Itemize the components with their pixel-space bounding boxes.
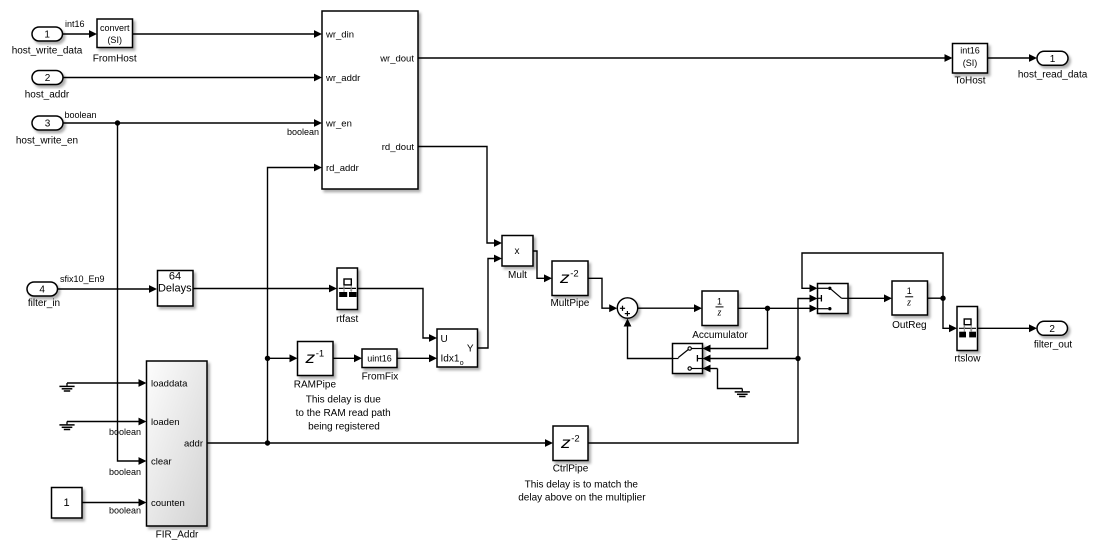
inport 1 host_write_data (32, 27, 63, 41)
outport 1 host_read_data (1037, 51, 1068, 65)
svg-text:boolean: boolean (109, 427, 141, 437)
switch block Switch2 (818, 284, 849, 314)
switch block Switch1 (mirrored) (673, 344, 703, 374)
svg-text:loaddata: loaddata (151, 378, 188, 389)
constant block value 1 (52, 488, 83, 519)
svg-text:wr_addr: wr_addr (325, 73, 360, 84)
svg-text:Idx1: Idx1 (441, 354, 460, 365)
svg-text:wr_en: wr_en (325, 118, 352, 129)
junction on host_write_en wire (115, 120, 120, 125)
svg-text:U: U (441, 334, 448, 345)
svg-text:x: x (515, 246, 520, 257)
wire addr to CtrlPipe (268, 439, 554, 447)
svg-text:rd_dout: rd_dout (382, 142, 415, 153)
svg-text:boolean: boolean (109, 506, 141, 516)
svg-text:2: 2 (1049, 324, 1055, 335)
svg-text:boolean: boolean (65, 110, 97, 120)
ground for Switch1 input 3 (735, 389, 750, 397)
svg-text:Y: Y (467, 343, 474, 354)
svg-text:to the RAM read path: to the RAM read path (296, 408, 391, 419)
wire FromHost to RAM wr_din (133, 30, 323, 38)
svg-text:rd_addr: rd_addr (326, 163, 359, 174)
label host_write_data (12, 45, 83, 56)
svg-text:(SI): (SI) (107, 35, 122, 45)
svg-text:Mult: Mult (508, 270, 527, 281)
delay block MultPipe (552, 261, 588, 296)
svg-text:1: 1 (717, 296, 722, 306)
label Mult (508, 270, 527, 281)
svg-text:Accumulator: Accumulator (692, 330, 748, 341)
wire OutReg junction down to rtslow (943, 298, 957, 332)
wire CtrlPipe to Switch2 input 2 (588, 295, 818, 443)
product block Mult (502, 236, 533, 267)
svg-text:host_write_data: host_write_data (12, 45, 83, 56)
svg-text:z: z (906, 297, 911, 308)
inport 2 host_addr (32, 71, 63, 85)
label OutReg (892, 320, 926, 331)
Delays block (64 Delays) (158, 271, 194, 307)
junction on addr vertical at RAMPipe branch (265, 356, 270, 361)
svg-text:convert: convert (100, 23, 130, 33)
wire addr branch to RAMPipe (268, 354, 298, 362)
svg-text:This delay is to match the: This delay is to match the (525, 479, 639, 490)
junction on OutReg output (940, 296, 945, 301)
svg-text:host_write_en: host_write_en (16, 135, 78, 146)
svg-text:64: 64 (169, 271, 181, 283)
ground 2 (59, 422, 74, 430)
svg-text:Delays: Delays (158, 283, 192, 295)
outport 2 filter_out (1037, 321, 1068, 335)
wire FIR_Addr addr output (207, 442, 268, 444)
annotation CtrlPipe delay note (518, 479, 646, 503)
svg-text:1: 1 (44, 30, 50, 41)
svg-text:1: 1 (63, 497, 69, 509)
wire RAM rd_dout to Mult input 1 (418, 147, 502, 247)
svg-text:filter_in: filter_in (28, 298, 60, 309)
svg-text:delay above on the multiplier: delay above on the multiplier (518, 492, 646, 503)
rate transition block rtslow (957, 307, 978, 351)
wire feedback OutReg to Switch2 input 1 (802, 253, 943, 298)
wire rtslow to Out2 filter_out (978, 324, 1038, 332)
signal type label boolean (host_write_en) (65, 110, 97, 120)
wire CtrlPipe branch to Switch1 input 2 (703, 355, 799, 363)
svg-text:-2: -2 (570, 269, 578, 280)
wire MultPipe to Sum (588, 278, 617, 312)
label FIR_Addr (156, 530, 199, 541)
label rtfast (336, 314, 358, 325)
ground 1 (59, 383, 74, 391)
svg-text:boolean: boolean (109, 467, 141, 477)
delay block Accumulator (702, 291, 738, 326)
subsystem block FIR_Addr (147, 361, 208, 526)
label filter_in (28, 298, 60, 309)
dual port RAM block (322, 11, 418, 189)
junction on addr wire (265, 440, 270, 445)
wire In1 host_write_data to FromHost (63, 30, 98, 38)
svg-text:o: o (460, 360, 464, 367)
selector block Idx1 (437, 329, 478, 367)
rate transition block rtfast (337, 268, 358, 310)
wire ToHost to Out1 host_read_data (988, 54, 1038, 62)
wire Selector Y to Mult input 2 (478, 255, 503, 348)
svg-text:ToHost: ToHost (954, 75, 985, 86)
svg-text:filter_out: filter_out (1034, 340, 1073, 351)
svg-text:-1: -1 (316, 349, 324, 360)
label ToHost (954, 75, 985, 86)
signal type label sfix10_En9 (60, 274, 105, 284)
svg-text:being registered: being registered (308, 422, 380, 433)
svg-text:FIR_Addr: FIR_Addr (156, 530, 199, 541)
wire OutReg output to junction (928, 297, 944, 299)
signal type label boolean (loaden) (109, 427, 141, 437)
svg-text:clear: clear (151, 456, 172, 467)
wire RAMPipe to FromFix (333, 354, 362, 362)
svg-text:z: z (716, 308, 721, 319)
label Accumulator (692, 330, 748, 341)
wire Sum to Accumulator (638, 304, 702, 312)
wire Switch1 input 3 from ground (703, 365, 743, 389)
label RAMPipe (294, 379, 337, 390)
wire In2 host_addr to RAM wr_addr (63, 74, 322, 82)
label rtslow (954, 353, 981, 364)
annotation RAM read path note (296, 394, 391, 432)
svg-text:rtfast: rtfast (336, 314, 358, 325)
label FromFix (362, 371, 399, 382)
junction on CtrlPipe vertical (795, 356, 800, 361)
signal type label boolean (counten) (109, 506, 141, 516)
svg-text:counten: counten (151, 498, 185, 509)
svg-text:host_read_data: host_read_data (1018, 70, 1088, 81)
signal type label boolean (clear) (109, 467, 141, 477)
svg-text:loaden: loaden (151, 417, 180, 428)
delay block CtrlPipe (553, 426, 588, 461)
svg-text:int16: int16 (960, 45, 980, 55)
wire Constant1 to FIR_Addr counten (82, 499, 147, 507)
label MultPipe (550, 298, 589, 309)
wire Delays to rtfast (193, 285, 337, 293)
wire branch host_write_en down to FIR_Addr clear (118, 123, 147, 465)
wire addr branch up to RAM rd_addr (268, 164, 323, 443)
sum block (617, 298, 637, 318)
svg-text:1: 1 (1050, 54, 1056, 65)
svg-text:sfix10_En9: sfix10_En9 (60, 274, 105, 284)
svg-text:z: z (559, 270, 570, 287)
svg-text:3: 3 (45, 119, 51, 130)
wire Mult to MultPipe (533, 251, 552, 282)
svg-text:host_addr: host_addr (25, 90, 70, 101)
wire ground1 to FIR_Addr loaddata (67, 379, 147, 387)
svg-text:CtrlPipe: CtrlPipe (553, 463, 589, 474)
wire In4 filter_in to Delays (57, 285, 157, 293)
wire In3 host_write_en to RAM wr_en (63, 119, 322, 127)
svg-text:OutReg: OutReg (892, 320, 926, 331)
svg-text:FromFix: FromFix (362, 371, 399, 382)
svg-text:int16: int16 (65, 19, 85, 29)
svg-text:-2: -2 (571, 433, 579, 444)
label CtrlPipe (553, 463, 589, 474)
wire Accumulator branch to Switch1 input 1 (703, 308, 768, 352)
wire Switch1 output to Sum bottom input (624, 319, 673, 359)
wire Accumulator to Switch2 input 3 (738, 305, 818, 313)
inport 4 filter_in (27, 282, 58, 296)
label filter_out (1034, 340, 1073, 351)
inport 3 host_write_en (32, 116, 63, 130)
svg-text:4: 4 (39, 285, 45, 296)
svg-text:FromHost: FromHost (93, 53, 137, 64)
svg-text:(SI): (SI) (963, 58, 978, 68)
delay block RAMPipe (298, 342, 334, 376)
svg-text:2: 2 (45, 73, 51, 84)
svg-text:z: z (560, 435, 571, 452)
wire rtfast to Selector U input (358, 289, 438, 342)
svg-text:RAMPipe: RAMPipe (294, 379, 337, 390)
svg-text:addr: addr (184, 438, 203, 449)
conversion block ToHost (953, 44, 988, 74)
signal type label int16 (65, 19, 85, 29)
svg-text:This delay is due: This delay is due (306, 394, 381, 405)
svg-text:wr_dout: wr_dout (379, 53, 414, 64)
junction on Accumulator output (765, 306, 770, 311)
svg-text:wr_din: wr_din (325, 29, 354, 40)
svg-text:boolean: boolean (287, 127, 319, 137)
svg-text:MultPipe: MultPipe (550, 298, 589, 309)
conversion block FromFix (362, 349, 397, 368)
label FromHost (93, 53, 137, 64)
svg-text:uint16: uint16 (367, 353, 392, 363)
wire Switch2 to OutReg (848, 294, 892, 302)
svg-text:1: 1 (907, 286, 912, 296)
wire RAM wr_dout to ToHost (418, 54, 953, 62)
svg-text:z: z (304, 350, 315, 367)
delay block OutReg (892, 281, 928, 315)
wire FromFix to Selector Idx1 input (397, 354, 437, 362)
svg-text:rtslow: rtslow (954, 353, 981, 364)
signal type label boolean (at wr_en port) (287, 127, 319, 137)
wire ground2 to FIR_Addr loaden (67, 418, 147, 426)
label host_read_data (1018, 70, 1088, 81)
data type conversion block FromHost (97, 19, 133, 48)
label host_write_en (16, 135, 78, 146)
label host_addr (25, 90, 70, 101)
